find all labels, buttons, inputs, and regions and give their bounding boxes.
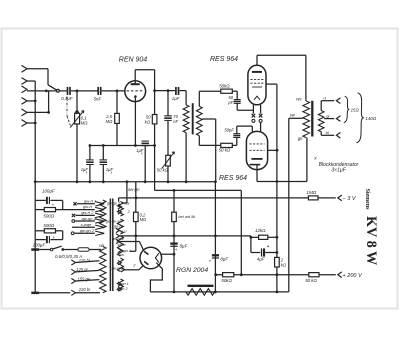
resistor 50kOhm grid upper — [221, 89, 237, 99]
tap 220 br — [71, 290, 100, 295]
terminal row gw-rt 1 — [73, 198, 104, 206]
svg-text:50kΩ: 50kΩ — [221, 278, 232, 283]
tube RES964 lower envelope — [246, 131, 267, 169]
wire speaker tap gr — [324, 116, 340, 122]
svg-text:sw: sw — [119, 253, 124, 257]
mains secondary S1 — [117, 202, 123, 217]
mains plug 1 — [31, 248, 50, 251]
antenna terminal 1 — [22, 65, 28, 72]
brace 140 Ohm — [356, 93, 363, 143]
label 100uF upper — [42, 189, 55, 194]
wire terminal1 to switch blade pivot — [27, 69, 48, 85]
resistor 2,5MOhm — [115, 90, 120, 146]
wire bottom B+ line — [150, 291, 288, 294]
mains plug 2 — [31, 292, 70, 295]
label rt-gn 1 — [118, 282, 129, 286]
label ge-br — [114, 225, 124, 229]
label 50 kOhm right — [305, 278, 317, 283]
svg-text:gw-rt 2: gw-rt 2 — [81, 210, 94, 215]
wire sec terminal A — [118, 182, 127, 209]
svg-text:50 kΩ: 50 kΩ — [305, 278, 317, 283]
label 50pF upper — [227, 95, 233, 105]
hum potentiometer — [186, 286, 215, 295]
tube REN904 envelope — [125, 81, 146, 102]
label 0,2 MOhm — [140, 212, 147, 222]
label bl — [326, 130, 329, 135]
svg-text:ge-br: ge-br — [114, 225, 124, 229]
resistor 50kOhm left — [223, 273, 234, 277]
svg-text:100µF: 100µF — [42, 189, 55, 194]
label 500 Ohm lower — [43, 223, 54, 228]
svg-text:8µF: 8µF — [220, 257, 228, 262]
svg-text:ge-br 2: ge-br 2 — [112, 237, 125, 241]
svg-text:15Ω: 15Ω — [351, 107, 360, 112]
label ge-br 2 — [112, 237, 125, 241]
mains secondary S4 — [117, 258, 123, 272]
wire terminal5 stub — [27, 111, 50, 114]
tap sec 4V — [116, 228, 120, 232]
tap sec 2-lower — [118, 261, 122, 265]
label rt — [323, 95, 326, 100]
wire terminal6 stub — [27, 122, 35, 124]
wire terminal4 stub — [27, 100, 35, 102]
mains switch — [50, 246, 78, 251]
label plus lower — [52, 235, 55, 240]
svg-text:sw-gn: sw-gn — [128, 187, 140, 192]
tube REN904 grid (dashed) — [127, 90, 144, 92]
label sw-gn — [128, 187, 140, 192]
fuse 0,6/0,5/0,35 A — [78, 248, 101, 252]
wire secondary center tap — [202, 119, 215, 182]
label 100uF lower — [33, 242, 46, 247]
label 2 upper — [127, 209, 131, 214]
wire HT winding line — [130, 228, 138, 251]
svg-text:gw-rt: gw-rt — [83, 204, 93, 209]
label 1uFx C — [136, 148, 144, 156]
label RES 964 lower — [219, 175, 247, 182]
wire left ground rail — [34, 81, 37, 293]
label 15 Ohm — [351, 107, 360, 112]
tube RES964 upper anode — [252, 71, 262, 73]
resistor 1MOhm — [308, 196, 335, 200]
label gn 1 — [124, 249, 131, 253]
capacitor 1uFx C — [141, 141, 149, 182]
potentiometer 50kOhm — [162, 152, 175, 182]
wire REN904 plate top-cap loop — [135, 70, 156, 92]
label 70nF — [173, 114, 178, 124]
label 8uF plus — [209, 259, 212, 264]
label 125 gr — [76, 267, 88, 272]
label RES 964 upper — [210, 56, 238, 63]
resistor 500 Ohm upper — [35, 208, 95, 212]
svg-text:kΩ: kΩ — [145, 120, 151, 125]
label 50 kOhm plate — [145, 115, 151, 125]
label 50 kOhm lower — [219, 147, 231, 152]
capacitor 5nF — [98, 87, 125, 95]
wire REN904 B+ feed — [155, 146, 243, 277]
svg-text:500Ω: 500Ω — [43, 213, 54, 218]
svg-text:x: x — [140, 152, 143, 156]
label RGN 2004 — [176, 267, 208, 274]
capacitor 4uF — [251, 237, 278, 256]
label plus upper — [52, 203, 55, 208]
wire REN904 cathode lead — [134, 102, 137, 147]
svg-text:ge: ge — [298, 136, 303, 141]
capacitor 100uF upper — [35, 197, 63, 210]
svg-text:x: x — [85, 170, 88, 174]
svg-text:x: x — [110, 170, 113, 174]
label 500 Ohm upper — [43, 213, 54, 218]
antenna terminal 3 — [22, 86, 28, 93]
switch S1 blade — [48, 85, 59, 92]
wire plate line — [155, 89, 175, 92]
wire center tap to B+ — [288, 118, 290, 292]
label +200V — [342, 273, 363, 279]
label sw lower — [119, 253, 124, 257]
svg-text:MΩ: MΩ — [140, 217, 147, 222]
antenna terminal 5 — [22, 109, 28, 116]
label sw-rt — [117, 243, 126, 247]
label 1uF — [172, 96, 180, 101]
label 2kOhm — [280, 257, 287, 267]
capacitor 1uFx bypass B — [100, 146, 108, 182]
wire secondary bottom to grid resistor — [199, 136, 221, 146]
mains transformer core — [110, 199, 112, 292]
wire terminal5 branch vertical — [48, 91, 50, 112]
svg-text:1MΩ: 1MΩ — [306, 190, 316, 195]
label ws (mains) — [99, 243, 105, 248]
tube pins between (x marks) — [252, 105, 263, 132]
wire +200V rail — [214, 273, 308, 276]
wire anode feed upper — [116, 239, 144, 251]
tap 110 bl — [71, 260, 99, 265]
antenna terminal 2 — [22, 78, 28, 85]
svg-text:500Ω: 500Ω — [43, 223, 54, 228]
svg-text:50 kΩ: 50 kΩ — [219, 147, 231, 152]
svg-text:s-wge: s-wge — [81, 222, 92, 227]
wire rectifier cathode — [161, 253, 174, 255]
label 1MOhm — [306, 190, 316, 195]
wire rectifier filament return — [150, 263, 162, 292]
svg-text:+: + — [175, 247, 178, 252]
wire secondary top to grid resistor — [199, 91, 221, 106]
terminal row gw-gn 1 — [72, 216, 104, 223]
output transformer core — [311, 101, 313, 137]
tap 125 gr — [71, 269, 99, 274]
mains secondary S5 — [117, 279, 123, 291]
label 0,1uF — [61, 96, 73, 101]
svg-text:gw-rt 1: gw-rt 1 — [84, 198, 96, 203]
capacitor 1uF (coupling) — [176, 87, 186, 105]
mains transformer primary lower — [100, 247, 106, 293]
svg-text:+ 200 V: + 200 V — [342, 273, 363, 279]
wire speaker tap rt — [321, 98, 340, 111]
capacitor 1uFx bypass A — [86, 146, 94, 182]
svg-text:RES 964: RES 964 — [219, 175, 247, 182]
interstage transformer primary — [183, 105, 189, 182]
svg-text:+: + — [52, 235, 55, 240]
svg-text:kΩ: kΩ — [281, 262, 287, 267]
svg-text:140Ω: 140Ω — [365, 116, 376, 121]
interstage transformer core — [192, 103, 194, 134]
ganged link (dash-dot) — [67, 97, 70, 126]
label sw (output) — [290, 113, 296, 118]
label 12kOhm — [255, 228, 266, 233]
label bei wd 5k — [178, 214, 196, 219]
tube RES964 lower anode bar — [251, 158, 262, 160]
svg-text:4µF: 4µF — [257, 256, 265, 261]
wire grid bias line — [119, 197, 309, 202]
resistor bei wd 5k — [172, 189, 177, 293]
mains secondary S3 — [117, 236, 123, 256]
resistor 50kOhm grid lower — [221, 138, 237, 148]
terminal row gw-gn 2 — [71, 228, 104, 235]
svg-text:Siemens: Siemens — [364, 189, 370, 211]
wire lower tube cathode — [257, 170, 277, 182]
tap 155 ge — [71, 278, 99, 283]
label ws (output) — [296, 97, 302, 102]
mains transformer primary upper — [100, 200, 106, 228]
svg-text:50kΩ: 50kΩ — [219, 84, 230, 89]
label sw-rt/ge — [111, 266, 125, 270]
label -3V — [342, 196, 356, 202]
label 140 Ohm — [365, 116, 376, 121]
tube RGN2004 envelope — [140, 247, 162, 269]
wire anode return — [276, 138, 307, 183]
antenna terminal 6 — [22, 120, 28, 127]
svg-text:MΩ: MΩ — [106, 119, 113, 124]
label rt-gn 2 — [117, 287, 129, 291]
label fuse rating — [55, 254, 82, 259]
tap sec 2-upper — [118, 210, 122, 214]
svg-text:MΩ: MΩ — [81, 120, 88, 125]
svg-text:gw-gn 2: gw-gn 2 — [80, 228, 95, 233]
label 220 br — [78, 287, 91, 292]
mains secondary S2 — [117, 219, 123, 234]
svg-text:ws: ws — [296, 97, 302, 102]
label REN 904 — [119, 57, 148, 64]
antenna terminal 4 — [22, 98, 28, 105]
label 0,1 MOhm — [81, 115, 88, 125]
capacitor 50pF lower — [233, 126, 252, 137]
svg-text:155 ge: 155 ge — [78, 277, 91, 282]
label 50pF lower — [224, 127, 234, 132]
capacitor 8uF first — [170, 244, 177, 247]
tube REN904 cathode — [134, 95, 137, 101]
wire speaker tap bl — [321, 132, 340, 138]
terminal row gw-rt 2 — [72, 210, 104, 217]
capacitor 100uF lower — [35, 236, 63, 243]
svg-text:KV 8 W: KV 8 W — [363, 216, 379, 265]
label 1uFx B — [106, 167, 114, 175]
svg-text:+: + — [52, 203, 55, 208]
svg-text:REN 904: REN 904 — [119, 57, 148, 64]
label 110 bl — [79, 258, 90, 263]
wire upper anode top loop — [257, 55, 306, 101]
tube RGN2004 filament — [155, 253, 158, 262]
resistor 500 Ohm lower — [35, 229, 63, 240]
wire ground bus — [35, 180, 217, 183]
svg-text:220 br: 220 br — [78, 287, 91, 292]
svg-text:bl: bl — [326, 130, 329, 135]
potentiometer 0,1MOhm — [70, 91, 84, 182]
svg-text:110 bl: 110 bl — [79, 258, 90, 263]
svg-text:12kΩ: 12kΩ — [255, 228, 266, 233]
svg-text:gw-gn 1: gw-gn 1 — [82, 216, 96, 221]
wire lower anode — [268, 149, 279, 152]
svg-text:4 V: 4 V — [121, 229, 127, 234]
label 1uFx A — [81, 167, 89, 175]
capacitor 8uF second — [212, 182, 219, 293]
output transformer primary — [303, 101, 310, 138]
wire terminal2 stub — [27, 80, 35, 82]
resistor 2kOhm — [275, 182, 280, 294]
tube RES964 upper grids — [250, 79, 263, 87]
terminal -3V — [338, 195, 342, 201]
label Blockkondensator — [313, 156, 358, 174]
output transformer secondary — [318, 111, 324, 132]
tube RES964 upper filament — [254, 96, 260, 100]
tube RES964 lower bottom electrode — [250, 165, 261, 170]
terminal row gw-rt — [83, 204, 104, 212]
tap sec rtgn2 — [118, 287, 122, 291]
label gr — [326, 113, 330, 118]
label KV 8 W — [363, 216, 379, 265]
label 4uF — [257, 256, 265, 261]
svg-text:RES 964: RES 964 — [210, 56, 238, 63]
resistor 50kOhm right — [309, 273, 336, 277]
label 155 ge — [78, 277, 91, 282]
tube RGN2004 anodes — [144, 251, 148, 265]
svg-text:sw-rt/ge: sw-rt/ge — [111, 266, 125, 270]
svg-text:3×1µF: 3×1µF — [331, 167, 346, 173]
svg-text:− 3 V: − 3 V — [342, 196, 356, 202]
svg-text:125 gr: 125 gr — [76, 267, 88, 272]
wire filter top — [215, 236, 258, 239]
terminal +200V — [338, 272, 342, 278]
label 50 kOhm vol — [157, 168, 169, 173]
resistor 12kOhm — [259, 235, 279, 239]
tube RES964 lower grids — [249, 144, 264, 150]
svg-text:sw-rt: sw-rt — [117, 243, 126, 247]
capacitor 70nF — [164, 91, 172, 156]
wire B+ line — [116, 234, 217, 238]
label 8uF first — [175, 243, 188, 251]
label 4uF plus — [267, 244, 270, 250]
wire anode feed lower — [121, 265, 144, 272]
label 8uF — [220, 257, 228, 262]
label 50kOhm left — [221, 278, 232, 283]
tube REN904 anode — [131, 81, 140, 84]
svg-text:gw-gn-sw: gw-gn-sw — [106, 219, 123, 223]
label gw-gn 1 ~ sw — [107, 202, 130, 206]
svg-text:bei wd 5k: bei wd 5k — [178, 214, 196, 219]
wire cathode bias line — [89, 144, 155, 147]
terminal row s-wge — [72, 222, 104, 229]
label ge (output) — [298, 136, 303, 141]
resistor 0,2MOhm — [134, 182, 139, 228]
capacitor 50pF upper — [234, 100, 254, 111]
label 5nF — [94, 97, 102, 102]
capacitor 0,1uF — [59, 87, 97, 95]
svg-text:100µF: 100µF — [33, 242, 46, 247]
tap sec gn1 — [118, 248, 122, 252]
svg-text:8µF: 8µF — [180, 243, 188, 248]
svg-text:50 kΩ: 50 kΩ — [157, 168, 169, 173]
label Siemens — [364, 189, 370, 211]
interstage transformer secondary — [196, 106, 202, 135]
tube RES964 upper envelope — [248, 65, 266, 105]
wire output center tap — [289, 117, 303, 119]
svg-text:50pF: 50pF — [224, 127, 234, 132]
svg-text:+: + — [209, 259, 212, 264]
label gw-gn-sw — [106, 219, 123, 223]
svg-text:RGN 2004: RGN 2004 — [176, 267, 208, 274]
resistor 50kOhm plate — [152, 91, 157, 147]
svg-text:1µF: 1µF — [172, 96, 180, 101]
svg-text:+: + — [267, 244, 270, 250]
wire upper tube g2 — [266, 84, 277, 181]
label 4V — [121, 229, 127, 234]
wire terminal3 to switch contact — [27, 90, 56, 93]
label 2,5 MOhm — [105, 114, 113, 124]
brace 15 Ohm — [344, 96, 350, 122]
svg-text:pF: pF — [227, 100, 233, 105]
label 50kOhm upper — [219, 84, 230, 89]
svg-text:5nF: 5nF — [94, 97, 102, 102]
label 2 lower — [132, 263, 136, 268]
tap sec rtgn1 — [118, 282, 122, 286]
svg-text:nF: nF — [173, 119, 178, 124]
